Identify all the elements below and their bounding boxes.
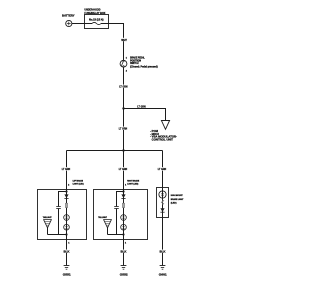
wire label LT GRN (below junction) <box>118 127 127 131</box>
fuse No.13 (15 A) <box>85 19 109 25</box>
svg-text:WHT: WHT <box>121 38 127 42</box>
wire label LT GRN (above junction) <box>119 85 128 89</box>
svg-text:BATTERY: BATTERY <box>62 13 75 17</box>
svg-text:No.13 (15 A): No.13 (15 A) <box>89 19 104 22</box>
node: left box top junction <box>65 190 67 192</box>
svg-text:CONTROL UNIT: CONTROL UNIT <box>152 137 174 141</box>
svg-text:BLK: BLK <box>64 250 70 254</box>
right box: main wire through <box>123 190 125 240</box>
destination list: PCM, MICU, VSA modulator-control unit <box>150 129 177 141</box>
capacitor C1 <box>56 207 61 209</box>
svg-text:RIGHT BRAKE: RIGHT BRAKE <box>127 180 139 183</box>
left box: main wire through <box>66 190 68 240</box>
right brake light box <box>94 190 148 240</box>
svg-text:TAILLIGHT: TAILLIGHT <box>98 216 107 219</box>
diode D1 <box>64 194 68 198</box>
wire label LT GRN (branch) <box>137 104 146 108</box>
wire label BLK (right) <box>159 250 166 254</box>
svg-text:UNDER-HOOD: UNDER-HOOD <box>84 7 100 11</box>
svg-text:BRAKE LIGHT: BRAKE LIGHT <box>171 198 184 201</box>
svg-text:LT GRN: LT GRN <box>119 85 127 89</box>
svg-text:(Closed: Pedal pressed): (Closed: Pedal pressed) <box>130 66 158 69</box>
connector arrow to PCM/MICU/VSA <box>161 121 169 130</box>
svg-text:G552: G552 <box>120 272 128 276</box>
wire battery to fuse box <box>72 23 85 25</box>
wire right drop <box>162 151 164 188</box>
svg-text:BLK: BLK <box>160 250 166 254</box>
wire right box to ground <box>123 240 125 266</box>
wire label LT GRN (right drop) <box>157 167 166 171</box>
under-hood fuse/relay box <box>84 7 108 28</box>
wire label WHT <box>121 38 128 42</box>
LED4 <box>121 224 127 230</box>
wire fuse box to main vertical <box>109 24 124 61</box>
resistor R2 <box>122 203 124 207</box>
wire high mount to ground <box>162 218 164 266</box>
wire capacitor down <box>116 209 118 235</box>
battery B1 <box>62 13 75 26</box>
wire taillight arrow to bottom link <box>107 228 109 235</box>
wire left drop <box>66 151 68 190</box>
node: bus junction <box>122 149 124 151</box>
svg-text:LIGHT (LED): LIGHT (LED) <box>127 184 138 186</box>
wire horizontal bus <box>67 150 163 152</box>
svg-text:G551: G551 <box>63 272 71 276</box>
high mount brake light box <box>157 188 169 218</box>
capacitor C2 <box>114 207 119 209</box>
svg-text:TAILLIGHT: TAILLIGHT <box>43 216 52 219</box>
svg-text:LT GRN: LT GRN <box>158 167 166 171</box>
node: junction to PCM/MICU/VSA branch <box>122 107 124 109</box>
svg-text:G601: G601 <box>159 272 167 276</box>
wire switch down to bus <box>123 67 125 151</box>
taillight feed arrow (left) <box>43 216 52 228</box>
resistor R1 <box>65 203 67 207</box>
wire bottom link (right box) <box>108 234 124 236</box>
wire center drop <box>123 151 125 190</box>
node: left box bottom junction <box>65 233 67 235</box>
wire left box to ground <box>66 240 68 266</box>
ground G601 <box>159 266 167 277</box>
wire label LT GRN (left drop) <box>61 167 70 171</box>
wire branch right <box>124 109 166 121</box>
left brake light box <box>38 190 87 240</box>
wire label BLK (left) <box>63 250 70 254</box>
svg-text:LT GRN: LT GRN <box>119 127 127 131</box>
svg-text:LT GRN: LT GRN <box>62 167 70 171</box>
wire taillight arrow to bottom link <box>47 228 49 235</box>
LED5 (high mount bulb) <box>159 191 166 198</box>
diode D3 (high mount) <box>160 208 164 212</box>
svg-text:LT GRN: LT GRN <box>119 167 127 171</box>
taillight feed arrow (right) <box>98 216 111 228</box>
svg-text:HIGH MOUNT: HIGH MOUNT <box>171 195 183 197</box>
LED1 <box>64 215 70 221</box>
node: right box top junction <box>122 190 124 192</box>
high mount: wire through <box>162 188 164 218</box>
wire bottom link (left box) <box>48 234 67 236</box>
ground G552 <box>120 266 128 277</box>
resistor R3 (high mount) <box>161 200 163 205</box>
brake pedal position switch S1 <box>120 56 158 72</box>
diode D2 <box>121 194 125 198</box>
ground G551 <box>63 266 71 277</box>
left box branch wire to capacitor <box>59 192 67 207</box>
svg-text:LEFT BRAKE: LEFT BRAKE <box>73 180 84 183</box>
LED3 <box>121 215 127 221</box>
svg-text:BLK: BLK <box>121 250 127 254</box>
right box branch wire to capacitor <box>117 192 124 207</box>
wire capacitor down <box>58 209 60 235</box>
svg-text:(LED): (LED) <box>171 203 177 205</box>
LED2 <box>64 224 70 230</box>
wire label BLK (center) <box>120 250 127 254</box>
wire label LT GRN (center drop) <box>118 167 127 171</box>
svg-text:LIGHT (LED): LIGHT (LED) <box>73 184 84 186</box>
svg-text:LT GRN: LT GRN <box>137 104 145 108</box>
node: right box bottom junction <box>122 233 124 235</box>
